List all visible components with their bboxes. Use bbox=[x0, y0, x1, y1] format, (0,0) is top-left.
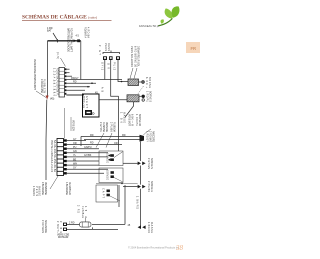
module box (black border) bbox=[83, 94, 100, 117]
block A pins bbox=[65, 68, 67, 94]
wire solenoid lower ground bbox=[125, 102, 134, 118]
svg-text:SONDE: SONDE bbox=[105, 170, 108, 180]
wire rail lower bbox=[140, 189, 142, 226]
wire main left drop lower bbox=[45, 100, 48, 180]
svg-text:4.RD.BA: 4.RD.BA bbox=[87, 27, 90, 38]
svg-text:2 RD: 2 RD bbox=[77, 205, 80, 213]
connector pair 2 bbox=[138, 185, 141, 189]
svg-text:MASSE: MASSE bbox=[150, 222, 153, 233]
label block B left bbox=[50, 140, 56, 173]
svg-text:VERS.BORNE.POSITIVE.BATT: VERS.BORNE.POSITIVE.BATT bbox=[33, 59, 36, 91]
svg-text:RACCORD: RACCORD bbox=[152, 131, 155, 142]
connector on bus bbox=[74, 39, 77, 42]
svg-text:38: 38 bbox=[175, 244, 184, 252]
svg-text:4 5: 4 5 bbox=[76, 35, 80, 38]
label ground cluster bbox=[120, 112, 142, 127]
svg-text:RD.PRINCIPAL.BATT: RD.PRINCIPAL.BATT bbox=[70, 28, 73, 53]
svg-text:GY/BK: GY/BK bbox=[84, 154, 92, 157]
svg-text:GY: GY bbox=[73, 138, 77, 141]
svg-text:GN/PU: GN/PU bbox=[84, 146, 92, 149]
label block A pins bbox=[53, 52, 60, 97]
wire plug2 drop bbox=[111, 60, 119, 96]
svg-text:SCHÉMAS DE CÂBLAGE (suite): SCHÉMAS DE CÂBLAGE (suite) bbox=[22, 13, 98, 21]
buzzer inside module bbox=[85, 110, 92, 115]
svg-text:BORNE 30: BORNE 30 bbox=[138, 114, 141, 127]
svg-text:OR: OR bbox=[114, 142, 118, 145]
label fuse bbox=[77, 205, 87, 218]
svg-text:(4,5): (4,5) bbox=[56, 52, 59, 59]
wire pair to junction bbox=[81, 136, 140, 138]
svg-text:5A.3A.10A.5A.15A.3A.5A: 5A.3A.10A.5A.15A.3A.5A bbox=[53, 140, 56, 172]
relay box 3 bbox=[96, 185, 118, 202]
leader junction bbox=[144, 129, 152, 135]
label solenoid upper bbox=[130, 46, 151, 89]
wire plug3 drop bbox=[118, 60, 128, 82]
node red arrow bbox=[46, 96, 49, 100]
bracket over plugs bbox=[103, 53, 120, 55]
FR page tab bbox=[186, 42, 200, 53]
wire fuse feed bbox=[67, 223, 80, 225]
svg-text:SONDE: SONDE bbox=[105, 153, 108, 163]
wire rail lower mid bbox=[118, 185, 120, 207]
svg-text:SOLENOIDE: SOLENOIDE bbox=[44, 220, 47, 233]
svg-text:2 RD: 2 RD bbox=[69, 222, 75, 225]
relay box 2 bbox=[99, 168, 123, 183]
svg-text:FUSIB 3A: FUSIB 3A bbox=[113, 122, 116, 132]
leaf logo bbox=[158, 6, 179, 26]
label junction bbox=[146, 131, 155, 143]
block B pins bbox=[64, 139, 67, 174]
svg-text:OR: OR bbox=[106, 63, 109, 69]
label wire tags bbox=[71, 77, 98, 95]
svg-text:FR: FR bbox=[191, 46, 197, 51]
label solenoid lower bbox=[145, 91, 151, 102]
harness caption FAISCEAU bbox=[139, 24, 160, 28]
label plugs bbox=[98, 43, 115, 71]
svg-text:GY/1: GY/1 bbox=[101, 62, 104, 71]
node main bus junction bbox=[48, 40, 81, 42]
footer page number bbox=[175, 244, 184, 252]
svg-text:1 BK/RD: 1 BK/RD bbox=[136, 196, 139, 209]
title underline bbox=[22, 20, 112, 22]
svg-text:VERS CDE: VERS CDE bbox=[105, 122, 108, 132]
svg-text:15 A: 15 A bbox=[84, 206, 87, 218]
wire row5 bbox=[66, 82, 96, 84]
label bottom-left notes bbox=[32, 186, 47, 233]
connector pair 3 bbox=[138, 225, 141, 229]
connector pair 1 bbox=[138, 162, 141, 166]
svg-text:CAPT: CAPT bbox=[101, 188, 104, 199]
wire right rail upper bbox=[118, 96, 120, 151]
svg-text:PU/2: PU/2 bbox=[112, 62, 115, 71]
terminal ring upper bbox=[139, 81, 142, 83]
svg-text:DU.MOTEUR: DU.MOTEUR bbox=[68, 182, 71, 195]
wire row8 bold bbox=[66, 94, 84, 96]
label module bbox=[82, 96, 88, 109]
wire right rail bbox=[140, 142, 142, 161]
svg-text:AB: AB bbox=[101, 87, 104, 92]
svg-text:MASSE: MASSE bbox=[123, 112, 126, 123]
wire main left drop bbox=[47, 41, 49, 97]
svg-text:VERS 12V: VERS 12V bbox=[71, 120, 74, 131]
wire stub above block B bbox=[70, 117, 72, 131]
title SCHEMAS DE CABLAGE bbox=[22, 13, 98, 21]
svg-text:RD: RD bbox=[90, 142, 94, 145]
wire bus corner down bbox=[80, 41, 82, 80]
svg-text:BORNE: BORNE bbox=[148, 77, 151, 88]
svg-text:RD.GY.BK.PU.OR.GN.YL: RD.GY.BK.PU.OR.GN.YL bbox=[55, 68, 58, 97]
wire above box3 bbox=[96, 183, 138, 185]
leader mid cluster bbox=[96, 133, 104, 148]
svg-text:DESS: DESS bbox=[107, 43, 110, 51]
leader block A bbox=[61, 58, 66, 67]
label below block B bbox=[41, 182, 71, 195]
svg-text:2 GY: 2 GY bbox=[98, 45, 101, 55]
wire bottom return bbox=[67, 228, 118, 230]
label mid cluster bbox=[99, 122, 116, 132]
svg-text:AVERT: AVERT bbox=[85, 96, 88, 109]
wire row6 bbox=[66, 86, 90, 88]
svg-text:PU: PU bbox=[73, 146, 77, 149]
svg-text:RD/GY: RD/GY bbox=[71, 77, 79, 80]
svg-text:45: 45 bbox=[128, 224, 131, 227]
wire row4 long bus bbox=[66, 79, 122, 81]
terminal ring lower bbox=[139, 95, 141, 97]
svg-text:BORNE S: BORNE S bbox=[148, 91, 151, 102]
svg-text:SONDE E: SONDE E bbox=[150, 181, 153, 192]
svg-text:BAT: BAT bbox=[47, 30, 52, 33]
leader to red arrow bbox=[36, 91, 46, 98]
svg-text:OR: OR bbox=[73, 142, 77, 145]
junction blob bbox=[140, 135, 145, 142]
svg-text:(45): (45) bbox=[50, 98, 54, 101]
relay box 1 bbox=[99, 151, 123, 166]
svg-text:© 2004 Bombardier Recreational: © 2004 Bombardier Recreational Products … bbox=[128, 247, 180, 250]
label battery feed bbox=[47, 27, 53, 33]
wire fuse out bbox=[92, 223, 125, 225]
fuse holder bbox=[80, 222, 92, 227]
wire dashed link bbox=[138, 86, 144, 95]
svg-text:MASSE: MASSE bbox=[38, 186, 41, 196]
svg-text:FAISCEAU 50 pz: FAISCEAU 50 pz bbox=[139, 24, 160, 28]
svg-text:BE: BE bbox=[73, 158, 77, 161]
svg-text:GY: GY bbox=[73, 167, 77, 170]
wire module to solenoid lower bbox=[99, 99, 127, 101]
svg-text:RD: RD bbox=[90, 134, 94, 137]
wires block B rows bbox=[67, 140, 86, 142]
svg-text:GN: GN bbox=[73, 150, 77, 153]
wires block A rows bbox=[66, 68, 69, 70]
plug pair bottom left bbox=[63, 223, 67, 226]
svg-text:FUSIBLE.25: FUSIBLE.25 bbox=[43, 79, 46, 94]
svg-text:DEMARREUR SOL: DEMARREUR SOL bbox=[137, 46, 140, 68]
label block B wire tags bbox=[73, 138, 118, 170]
svg-text:WH: WH bbox=[73, 162, 77, 165]
svg-text:MOTEUR: MOTEUR bbox=[58, 236, 69, 239]
connector block A bbox=[59, 68, 65, 98]
leader to bus bbox=[53, 33, 58, 40]
solenoid upper bbox=[128, 79, 139, 86]
svg-text:RD: RD bbox=[122, 134, 126, 137]
connector plugs top trio bbox=[103, 56, 120, 60]
wire riser into block B bbox=[64, 108, 66, 139]
leader below block B bbox=[50, 176, 58, 189]
wire riser right of box3 bbox=[124, 185, 126, 224]
node AB tag bbox=[101, 87, 104, 92]
solenoid lower bbox=[127, 95, 139, 102]
svg-text:2 BK: 2 BK bbox=[59, 221, 62, 233]
wire row7 bbox=[66, 89, 85, 91]
footer copyright bbox=[128, 247, 180, 250]
fuse block B bbox=[57, 139, 64, 176]
svg-text:SONDE N: SONDE N bbox=[150, 158, 153, 169]
svg-text:6 BK — M: 6 BK — M bbox=[131, 114, 134, 126]
label left long vertical bbox=[33, 59, 46, 94]
leader solenoid upper bbox=[130, 68, 133, 79]
wire plug1 drop bbox=[104, 60, 106, 80]
svg-text:VERS.BORNE: VERS.BORNE bbox=[44, 182, 47, 195]
svg-text:RD: RD bbox=[73, 80, 77, 83]
label bus vertical bbox=[66, 27, 89, 53]
wire rail mid bbox=[140, 166, 142, 185]
